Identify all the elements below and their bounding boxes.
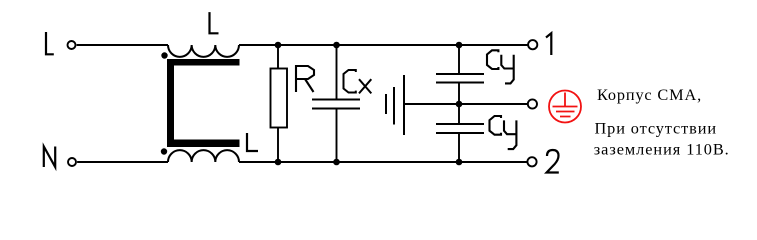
node Cy middle [456, 101, 463, 108]
node resistor top [275, 42, 282, 49]
node Cx top [333, 42, 340, 49]
terminal 2 label [547, 150, 559, 173]
svg-text:Корпус СМА,: Корпус СМА, [597, 85, 702, 104]
wire bottom rail [239, 161, 527, 163]
node resistor bottom [275, 159, 282, 166]
wire resistor leads [277, 45, 279, 162]
svg-text:заземления 110В.: заземления 110В. [594, 140, 730, 159]
terminal L label [46, 32, 54, 54]
terminal N circle [68, 158, 76, 166]
terminal ground circle [528, 99, 537, 108]
inductor L top label [210, 12, 219, 33]
wire L to choke [77, 44, 168, 46]
terminal N label [44, 147, 55, 168]
choke winding dot top [161, 52, 167, 58]
inductor L bottom label [247, 133, 258, 151]
capacitor Cy lower [436, 104, 484, 162]
resistor R label [296, 66, 314, 92]
capacitor Cy upper label [487, 50, 514, 83]
protective earth symbol red [549, 91, 581, 123]
node Cx bottom [333, 159, 340, 166]
wire N to choke [77, 161, 168, 163]
chassis earth symbol left [386, 75, 404, 135]
capacitor Cy lower label [490, 116, 517, 149]
node Cy top rail [456, 42, 463, 49]
choke winding dot bottom [161, 148, 167, 154]
wire middle rail [404, 103, 527, 105]
inductor L top winding [168, 45, 239, 57]
choke core [167, 59, 240, 147]
wire top rail [239, 44, 528, 46]
inductor L bottom winding [168, 150, 239, 162]
capacitor Cx label [344, 70, 372, 93]
resistor R body [271, 69, 288, 128]
terminal 2 circle [527, 157, 536, 166]
terminal 1 label [546, 33, 551, 55]
capacitor Cx [312, 45, 360, 162]
svg-text:При отсутствии: При отсутствии [595, 118, 717, 137]
node Cy bottom rail [456, 159, 463, 166]
terminal L circle [68, 41, 76, 49]
terminal 1 circle [528, 40, 537, 49]
capacitor Cy upper [436, 45, 484, 104]
